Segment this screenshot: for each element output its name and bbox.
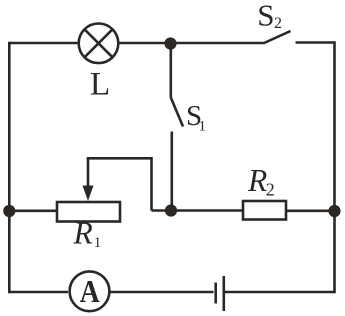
svg-text:2: 2 — [274, 15, 282, 32]
svg-text:2: 2 — [266, 180, 275, 200]
svg-text:R: R — [73, 216, 93, 251]
svg-text:L: L — [90, 66, 110, 102]
svg-text:A: A — [80, 273, 100, 309]
svg-text:1: 1 — [199, 119, 207, 135]
svg-text:1: 1 — [94, 235, 102, 251]
svg-text:S: S — [257, 0, 274, 32]
svg-text:R: R — [247, 163, 267, 198]
